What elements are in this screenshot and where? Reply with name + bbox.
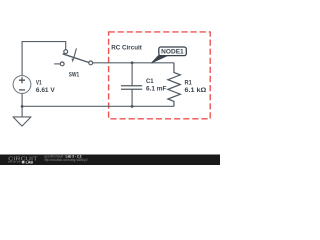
- junction node: cap top: [131, 61, 134, 64]
- svg-text:RC Circuit: RC Circuit: [111, 45, 143, 52]
- svg-text:R1: R1: [185, 79, 193, 86]
- NODE1 flag box: [159, 47, 187, 56]
- switch common circle right: [89, 61, 93, 65]
- svg-text:http://circuitlab.com/c/abg7s8: http://circuitlab.com/c/abg7s885hy2/: [44, 158, 87, 162]
- svg-text:NODE1: NODE1: [161, 49, 184, 56]
- footer logo lines + LAB: [8, 161, 20, 163]
- svg-text:6.1 mF: 6.1 mF: [146, 85, 167, 92]
- wire: V1 top to switch (left loop): [22, 42, 66, 76]
- svg-text:LAB: LAB: [26, 160, 34, 164]
- wire: V1 bottom to ground node: [21, 93, 23, 116]
- wire: bottom rail: [22, 105, 174, 107]
- resistor R1 zigzag: [168, 63, 180, 107]
- svg-text:C1: C1: [146, 78, 154, 85]
- junction node: V1/ground: [21, 105, 24, 108]
- wire: capacitor top lead: [131, 63, 133, 86]
- svg-text:SW1: SW1: [69, 71, 80, 78]
- switch actuator arrow: [73, 48, 76, 59]
- svg-text:V1: V1: [36, 80, 42, 87]
- wire: capacitor bottom lead: [131, 90, 133, 107]
- NODE1 flag pointer tail: [152, 56, 168, 63]
- wire: top rail from switch into box: [93, 62, 174, 64]
- capacitor C1 plates: [121, 86, 142, 90]
- svg-text:6.1 kΩ: 6.1 kΩ: [185, 87, 207, 94]
- switch pole circle top: [64, 50, 68, 54]
- RC Circuit dashed boundary box: [109, 32, 211, 119]
- footer bar: [0, 155, 220, 166]
- wire: open stub on switch left throw: [54, 63, 60, 65]
- ground: [13, 117, 31, 126]
- svg-text:6.61 V: 6.61 V: [36, 87, 56, 94]
- junction node: cap bottom: [131, 105, 134, 108]
- switch SW1: [60, 48, 92, 65]
- voltage source V1: [13, 76, 31, 94]
- switch throw circle left: [60, 62, 64, 66]
- switch arm: [63, 54, 89, 63]
